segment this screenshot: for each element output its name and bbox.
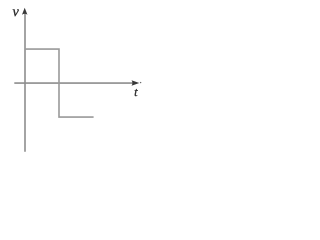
svg-text:v: v	[13, 4, 20, 20]
svg-text:t: t	[134, 85, 138, 99]
